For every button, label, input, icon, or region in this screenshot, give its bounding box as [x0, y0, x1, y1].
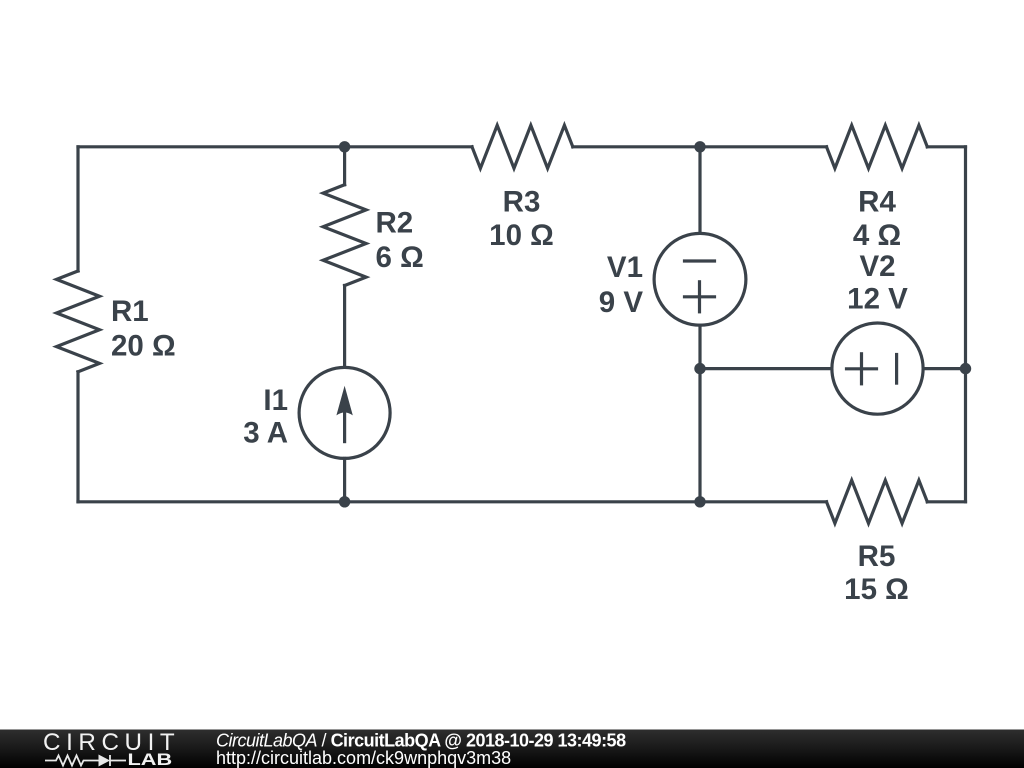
svg-text:I1: I1	[263, 384, 288, 417]
svg-text:R3: R3	[503, 185, 541, 218]
wire middle horizontal to V2	[700, 367, 832, 370]
svg-text:http://circuitlab.com/ck9wnphq: http://circuitlab.com/ck9wnphqv3m38	[216, 748, 511, 768]
node bottom-I1 junction	[339, 496, 350, 507]
resistor R5	[827, 480, 928, 523]
wire V2 right lead	[923, 367, 965, 370]
node bottom-V1 junction	[694, 496, 705, 507]
svg-text:4 Ω: 4 Ω	[853, 219, 901, 252]
svg-text:V1: V1	[607, 251, 643, 284]
svg-text:3 A: 3 A	[243, 417, 288, 450]
svg-text:LAB: LAB	[128, 750, 173, 768]
voltage source V2	[832, 323, 923, 414]
resistor R4	[827, 125, 928, 168]
svg-text:6 Ω: 6 Ω	[376, 241, 424, 274]
svg-text:10 Ω: 10 Ω	[489, 219, 554, 252]
CircuitLab logo	[43, 729, 180, 768]
footer bar	[0, 730, 1024, 768]
resistor R1	[57, 271, 100, 372]
wire top-right (R4 to corner)	[927, 145, 965, 148]
svg-text:R5: R5	[858, 540, 896, 573]
wire left vertical lower	[76, 372, 79, 502]
node V1-bottom junction	[694, 363, 705, 374]
wire R2 to I1	[343, 286, 346, 368]
current source I1	[299, 367, 390, 458]
svg-text:R2: R2	[376, 207, 414, 240]
wire bottom-right (R5 to corner)	[927, 500, 965, 503]
node top-R2 junction	[339, 141, 350, 152]
wire top-left horizontal	[78, 145, 472, 148]
resistor R2	[323, 185, 366, 286]
svg-text:20 Ω: 20 Ω	[111, 330, 176, 363]
svg-text:12 V: 12 V	[847, 283, 908, 316]
svg-text:9 V: 9 V	[599, 286, 644, 319]
wire top middle (R3 to V1 node to R4)	[573, 145, 827, 148]
resistor R3	[472, 125, 573, 168]
svg-text:15 Ω: 15 Ω	[844, 573, 909, 606]
wire V1 bottom lead	[698, 325, 701, 368]
wire V1 top lead	[698, 147, 701, 234]
svg-text:R4: R4	[858, 185, 896, 218]
wire R2 top lead	[343, 147, 346, 185]
svg-text:R1: R1	[111, 295, 149, 328]
node V2-right junction	[960, 363, 971, 374]
svg-text:V2: V2	[859, 250, 895, 283]
wire V1 node to bottom	[698, 369, 701, 502]
voltage source V1	[654, 233, 746, 325]
wire bottom horizontal	[78, 500, 827, 503]
node top-V1 junction	[694, 141, 705, 152]
wire left vertical upper	[76, 147, 79, 271]
wire right vertical	[964, 147, 967, 502]
wire I1 bottom lead	[343, 458, 346, 501]
